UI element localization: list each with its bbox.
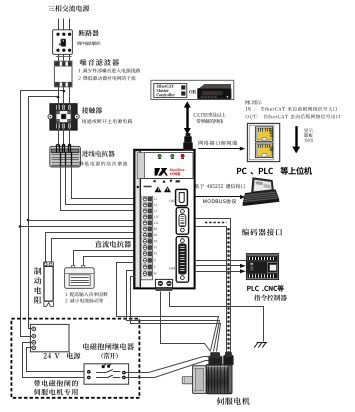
label 伺服电机	[217, 397, 250, 404]
wire reactor output to drive L2	[66, 166, 135, 205]
drive panel divider	[141, 178, 193, 180]
RJ45 interface block	[247, 123, 279, 161]
drive bullet marker	[137, 186, 139, 188]
label CAT5E line2	[196, 119, 223, 123]
label OUT rotated	[270, 128, 274, 137]
label CAT5E line1	[194, 113, 226, 117]
drive CN1 IO connector	[176, 237, 188, 283]
label 断路器	[79, 30, 99, 36]
PLC controller device icon	[246, 254, 278, 280]
motor encoder connector	[224, 355, 234, 365]
label 接触器	[82, 107, 102, 113]
wire control tap L2C to left bus	[28, 96, 58, 98]
wire relay to motor brake 1	[126, 357, 211, 373]
drive logo red text line1	[170, 168, 184, 171]
wire braking resistor B2 to drive	[52, 239, 135, 263]
wire drive V to motor	[127, 271, 220, 352]
braking resistor R1 制动电阻	[44, 262, 54, 267]
servo motor shaft	[182, 377, 193, 384]
note dc reactor 2	[65, 298, 103, 302]
EtherCAT controller router device	[199, 84, 231, 89]
wire drive W to motor	[131, 277, 221, 352]
note line reactor	[79, 161, 127, 165]
LED ERR red	[181, 154, 184, 157]
label 面板	[304, 133, 313, 137]
servo drive unit body	[134, 150, 194, 289]
node junction control bus upper	[27, 219, 30, 222]
LED RUN green	[158, 154, 161, 157]
drive left heatsink strip	[135, 151, 140, 288]
encoder cable rail bottom	[195, 227, 227, 353]
label 显示	[304, 128, 313, 132]
relay terminals	[87, 370, 91, 374]
note contactor	[82, 119, 132, 123]
line reactor L1 进线电抗器	[50, 146, 81, 167]
drive CN4 label	[169, 267, 175, 269]
24V power supply box	[30, 324, 69, 351]
wire contactor to line reactor	[58, 130, 60, 147]
label 直流电抗器	[95, 241, 131, 248]
wire left bus to 24V terminal 1	[28, 328, 32, 330]
drive bottom vent strip	[156, 288, 172, 291]
wire filter to contactor	[58, 87, 60, 105]
node junction middle phase to control bus	[63, 90, 66, 93]
label 噪音滤波器	[80, 59, 119, 66]
encoder cable chain vertical	[227, 228, 229, 352]
wire control tap L1C to left bus	[20, 90, 64, 92]
wire control power L1C to drive	[28, 220, 134, 222]
relay contact blade 2	[96, 377, 107, 379]
label 编码器接口	[242, 229, 282, 236]
label IN rotated	[270, 147, 273, 151]
note dc reactor 1	[65, 292, 107, 296]
label PC PLC host	[237, 167, 312, 175]
wire three-phase drop to breaker	[58, 19, 60, 32]
drive top panel	[145, 153, 193, 179]
relay contact blade 1	[96, 372, 107, 374]
warning triangle 2	[164, 186, 171, 192]
motor power connector	[209, 356, 222, 365]
label 保护电源线路用	[77, 41, 101, 45]
label 电磁抱闸继电器	[83, 343, 134, 350]
wire drive PE to ground	[170, 292, 264, 342]
RJ45 jack OUT	[255, 127, 272, 142]
display panel direction arrow	[295, 126, 297, 148]
servo motor flange	[193, 366, 207, 394]
wire drive to PLC 1	[195, 260, 247, 262]
wire reactor output to drive L1	[72, 166, 135, 199]
label 伺服电机专用	[34, 389, 78, 396]
label OR	[189, 90, 196, 94]
drive CN2 encoder connector	[176, 208, 188, 235]
wire reactor output to drive L3	[61, 166, 135, 211]
brake relay box	[84, 364, 129, 384]
wire drive to PLC 2 with arrow	[195, 265, 241, 267]
EtherCAT master group box	[151, 80, 234, 99]
wire drive U to motor	[117, 263, 219, 351]
24V supply terminals	[32, 327, 36, 331]
drive logo red text line2	[170, 172, 180, 175]
drive power terminal block	[141, 196, 153, 279]
laptop computer icon	[243, 178, 280, 206]
wire left bus vertical x20	[20, 91, 22, 336]
wire breaker to noise filter	[58, 54, 60, 62]
wire left bus to 24V terminal 2	[20, 336, 32, 338]
label （常开）	[101, 353, 117, 359]
label 24V power	[43, 352, 80, 359]
wire braking resistor B1 to drive	[46, 233, 135, 263]
label 网络接口俯视图	[199, 141, 237, 146]
label PLC CNC line1	[247, 285, 283, 291]
label PLC CNC line2	[254, 295, 287, 301]
drive key arrows row	[153, 180, 156, 183]
wire motor power via bottom connector	[161, 292, 211, 352]
relay coil pins	[102, 365, 105, 368]
dashed enclosure box	[11, 319, 139, 398]
encoder cable rail top	[195, 219, 231, 353]
warning triangle 1	[154, 186, 161, 192]
wire DC reactor terminal 1 to drive	[74, 251, 135, 268]
wire 24V terminal 4 to relay upper	[27, 348, 87, 372]
label 基于485232通信接口	[195, 184, 246, 189]
label three-phase AC source 三相交流电源	[48, 5, 89, 11]
note IN ethercat	[246, 107, 337, 111]
wire 24V terminal 3 to relay	[23, 343, 87, 378]
wire relay to motor brake 2	[126, 361, 212, 378]
drive top EtherCAT plug	[186, 133, 190, 136]
EtherCAT Master Controller box	[154, 84, 187, 98]
wire drive to PLC 3 with arrow	[195, 271, 241, 273]
drive CN3 mini-USB port	[176, 189, 188, 205]
label MODBUS协议	[203, 199, 236, 204]
arrow to RJ45 view	[198, 148, 240, 150]
RJ45 jack IN	[255, 143, 272, 158]
node junction control bus lower	[19, 225, 22, 228]
noise filter FLT	[54, 61, 72, 87]
LED COM green	[171, 154, 174, 157]
label 进线电抗器	[82, 151, 115, 157]
DC reactor L2 直流电抗器	[72, 265, 75, 268]
wire left bus vertical x28	[28, 97, 30, 329]
label 网口指示	[245, 100, 261, 104]
circuit breaker QF	[53, 30, 73, 55]
wire DC reactor terminal 2 to drive	[84, 257, 135, 268]
label 带电磁抱闸的	[34, 380, 78, 387]
double arrow CAT5E cable	[186, 106, 188, 129]
label 方向	[304, 138, 313, 142]
drive CN5 label	[169, 200, 175, 202]
wire control power L2C to drive	[20, 226, 134, 228]
drive motor output connector	[155, 279, 172, 287]
ground symbol earth	[258, 342, 262, 347]
encoder cable dashes horizontal	[205, 222, 227, 224]
note filter 1	[79, 68, 141, 72]
wire RS485 to laptop with arrow	[194, 196, 241, 198]
note OUT ethercat	[246, 114, 340, 118]
label 制动电阻 vertical	[34, 268, 41, 304]
contactor KM	[50, 104, 77, 131]
note filter 2	[79, 76, 136, 80]
node junction left phase to control bus	[57, 96, 60, 99]
drive logo MX black	[155, 168, 168, 176]
